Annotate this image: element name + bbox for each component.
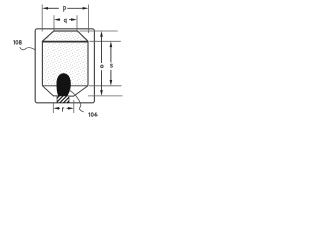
extension line shoulder right bbox=[90, 40, 121, 42]
dimension s top arrowhead bbox=[110, 41, 113, 47]
dimension p right arrowhead bbox=[83, 7, 89, 10]
black dome (melt column) bbox=[57, 73, 71, 96]
dimension p line left segment bbox=[47, 7, 59, 9]
dimension q left arrowhead bbox=[54, 18, 60, 21]
dimension r line left stub bbox=[58, 107, 61, 109]
label o bbox=[101, 65, 103, 68]
funnel right slant + shelf bbox=[69, 86, 88, 96]
extension line bottom flat right bbox=[89, 85, 122, 87]
label 108 bbox=[14, 40, 22, 44]
dimension o bottom arrowhead bbox=[100, 90, 103, 96]
extension line funnel exit right bbox=[88, 95, 123, 97]
dimension r right arrowhead bbox=[68, 107, 74, 110]
extension line mesa top right bbox=[80, 30, 118, 32]
dimension p right extension line bbox=[87, 5, 89, 34]
dimension q right extension line bbox=[76, 15, 78, 30]
dimension o top arrowhead bbox=[100, 31, 103, 37]
dimension q right arrowhead bbox=[71, 18, 77, 21]
dimension s line lower segment bbox=[110, 70, 112, 81]
hatched nozzle 104 bbox=[57, 96, 69, 103]
dimension r left arrowhead bbox=[53, 107, 59, 110]
dimension s bottom arrowhead bbox=[110, 80, 113, 86]
leader line 104 bbox=[69, 90, 84, 112]
dimension r right extension line bbox=[73, 100, 75, 113]
die body fill (stippled block) bbox=[42, 41, 88, 86]
dimension s line upper segment bbox=[110, 46, 112, 63]
die mesa cap fill (stippled trapezoid) bbox=[42, 31, 88, 41]
label s bbox=[110, 64, 112, 67]
dimension q left extension line bbox=[53, 15, 55, 30]
shoulder line bbox=[42, 41, 88, 43]
dimension p left arrowhead bbox=[42, 7, 48, 10]
outer container box 108 bbox=[35, 29, 94, 103]
funnel left slant + shelf bbox=[42, 86, 57, 96]
dimension q line left stub bbox=[58, 19, 60, 21]
dimension q line right stub bbox=[69, 19, 72, 21]
label p bbox=[64, 6, 66, 11]
label r bbox=[63, 108, 64, 112]
bottom flat line bbox=[42, 85, 88, 87]
label q bbox=[64, 19, 66, 23]
dimension o line upper segment bbox=[101, 36, 103, 64]
dimension o line lower segment bbox=[101, 70, 103, 91]
die outline (sides and chamfered top) bbox=[42, 31, 88, 86]
dimension p line right segment bbox=[67, 7, 84, 9]
leader line 108 bbox=[20, 47, 36, 50]
dimension p left extension line bbox=[41, 5, 43, 32]
dimension r line right stub bbox=[67, 107, 70, 109]
label 104 bbox=[89, 113, 98, 117]
dimension r left extension line bbox=[52, 102, 54, 113]
